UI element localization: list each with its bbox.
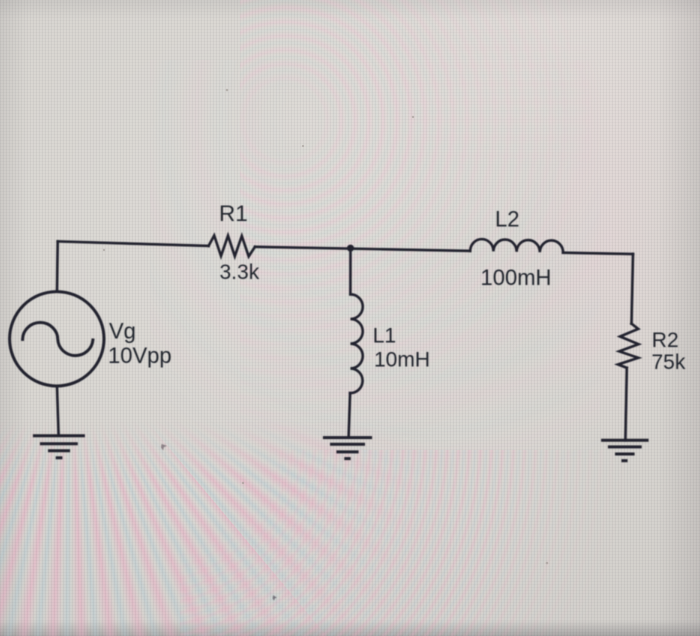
wire R1 to L2 [255,247,470,251]
mouse cursor [273,595,277,600]
wire junction down to L1 [349,248,352,294]
wire top-left segment [58,241,209,246]
svg-text:10Vpp: 10Vpp [108,343,172,368]
svg-text:75k: 75k [652,351,686,374]
resistor R1 [209,236,255,257]
wire R2 to ground [625,368,626,441]
wire source to ground [57,386,59,436]
svg-text:3.3k: 3.3k [220,261,260,284]
svg-text:100mH: 100mH [481,265,552,290]
voltage source Vg circle [10,292,104,386]
node junction dot [347,245,354,252]
ground (right) [601,440,649,460]
svg-text:L1: L1 [373,325,396,348]
ground (middle) [323,438,372,459]
wire L2 to right corner [563,253,633,254]
resistor R2 [618,324,639,368]
wire left corner down to source [56,241,59,291]
sine symbol inside source [23,323,93,356]
svg-text:Vg: Vg [109,319,136,344]
wire right corner down to R2 [632,254,634,324]
dust specks [103,89,549,565]
svg-text:R2: R2 [652,329,679,352]
small speck cursor [161,444,167,450]
ground (left) [33,436,85,458]
inductor L2 [470,239,563,253]
svg-text:10mH: 10mH [374,349,430,372]
wire L1 to ground [349,393,351,438]
inductor L1 [350,294,363,393]
svg-text:R1: R1 [219,201,248,226]
svg-text:L2: L2 [495,207,519,232]
